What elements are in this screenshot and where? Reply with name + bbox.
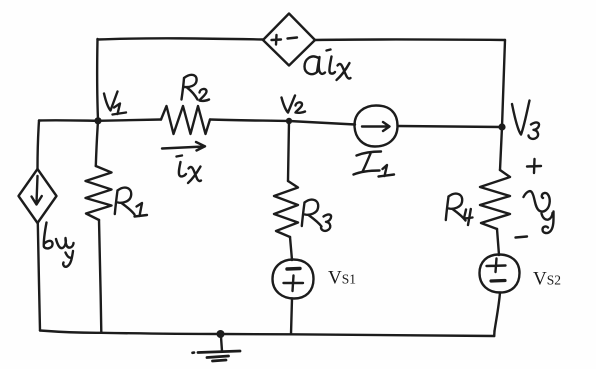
- current source I1 circle: [355, 106, 398, 147]
- wire bottom corner right: [493, 331, 496, 336]
- wire top-left vertical V1 up: [96, 39, 99, 120]
- wire bvy to bottom: [38, 223, 40, 331]
- label I1: [354, 152, 395, 177]
- dependent source U_a diamond (a*ix): [263, 14, 315, 66]
- Vs1 plus inside: [284, 276, 304, 292]
- dependent source U_b diamond (b*vy): [19, 169, 57, 223]
- label ix: [177, 156, 202, 184]
- label vy right with + -: [516, 159, 554, 238]
- label V2: [282, 96, 306, 113]
- label V1: [104, 92, 126, 115]
- wire V2 to I1: [289, 121, 355, 125]
- Vs2 plus inside: [487, 259, 506, 273]
- Vs2 minus inside: [491, 279, 505, 283]
- I1 arrow: [362, 122, 390, 131]
- label R2: [182, 75, 210, 101]
- resistor R1: [86, 166, 112, 220]
- ground tick left: [193, 351, 195, 354]
- wire V1 down to R1: [96, 121, 98, 166]
- bvy arrow inside: [32, 176, 42, 205]
- node V3 dot: [498, 123, 505, 130]
- wire V1 to R2: [98, 120, 161, 121]
- label + inside diamond: [272, 35, 282, 45]
- label - inside diamond: [288, 38, 298, 39]
- label V3: [512, 101, 539, 139]
- label ix current arrow: [162, 142, 205, 151]
- ground bar 3: [213, 360, 227, 361]
- label a ix: [305, 50, 351, 81]
- ground bar 1: [198, 351, 240, 353]
- label R3: [302, 200, 331, 231]
- label R1: [115, 188, 147, 217]
- wire middle left stub: [39, 119, 98, 122]
- wire bottom horizontal: [40, 331, 494, 337]
- wire R2 to V2: [210, 120, 289, 122]
- node V1 dot: [94, 117, 101, 124]
- ground junction dot: [217, 330, 225, 338]
- resistor R4: [480, 170, 510, 229]
- wire top horizontal left segment: [98, 38, 264, 39]
- wire Vs2 to bottom corner: [495, 293, 501, 332]
- label R4: [446, 194, 473, 225]
- voltage source Vs1 circle: [273, 260, 314, 299]
- wire Vs1 to bottom: [291, 299, 292, 335]
- Vs1 minus inside: [287, 267, 300, 271]
- wire V2 down to R3: [288, 121, 289, 181]
- resistor R2: [161, 106, 210, 134]
- voltage source Vs2 circle: [480, 255, 520, 293]
- node V2 dot: [286, 118, 292, 124]
- wire top horizontal right segment: [315, 38, 505, 41]
- svg-text:VS1: VS1: [328, 268, 356, 289]
- wire R1 to bottom: [99, 220, 101, 333]
- wire right vertical from top to V3: [502, 40, 505, 127]
- ground bar 2: [207, 356, 229, 358]
- wire R4 to Vs2: [497, 229, 499, 255]
- resistor R3: [274, 181, 298, 237]
- wire V3 down to R4: [500, 127, 502, 170]
- ground stem: [221, 334, 222, 351]
- wire left vertical down to bvy source: [38, 121, 40, 170]
- wire R3 to Vs1: [290, 237, 292, 260]
- wire I1 to V3: [398, 126, 503, 127]
- svg-text:VS2: VS2: [533, 269, 561, 290]
- label b vy: [44, 223, 74, 267]
